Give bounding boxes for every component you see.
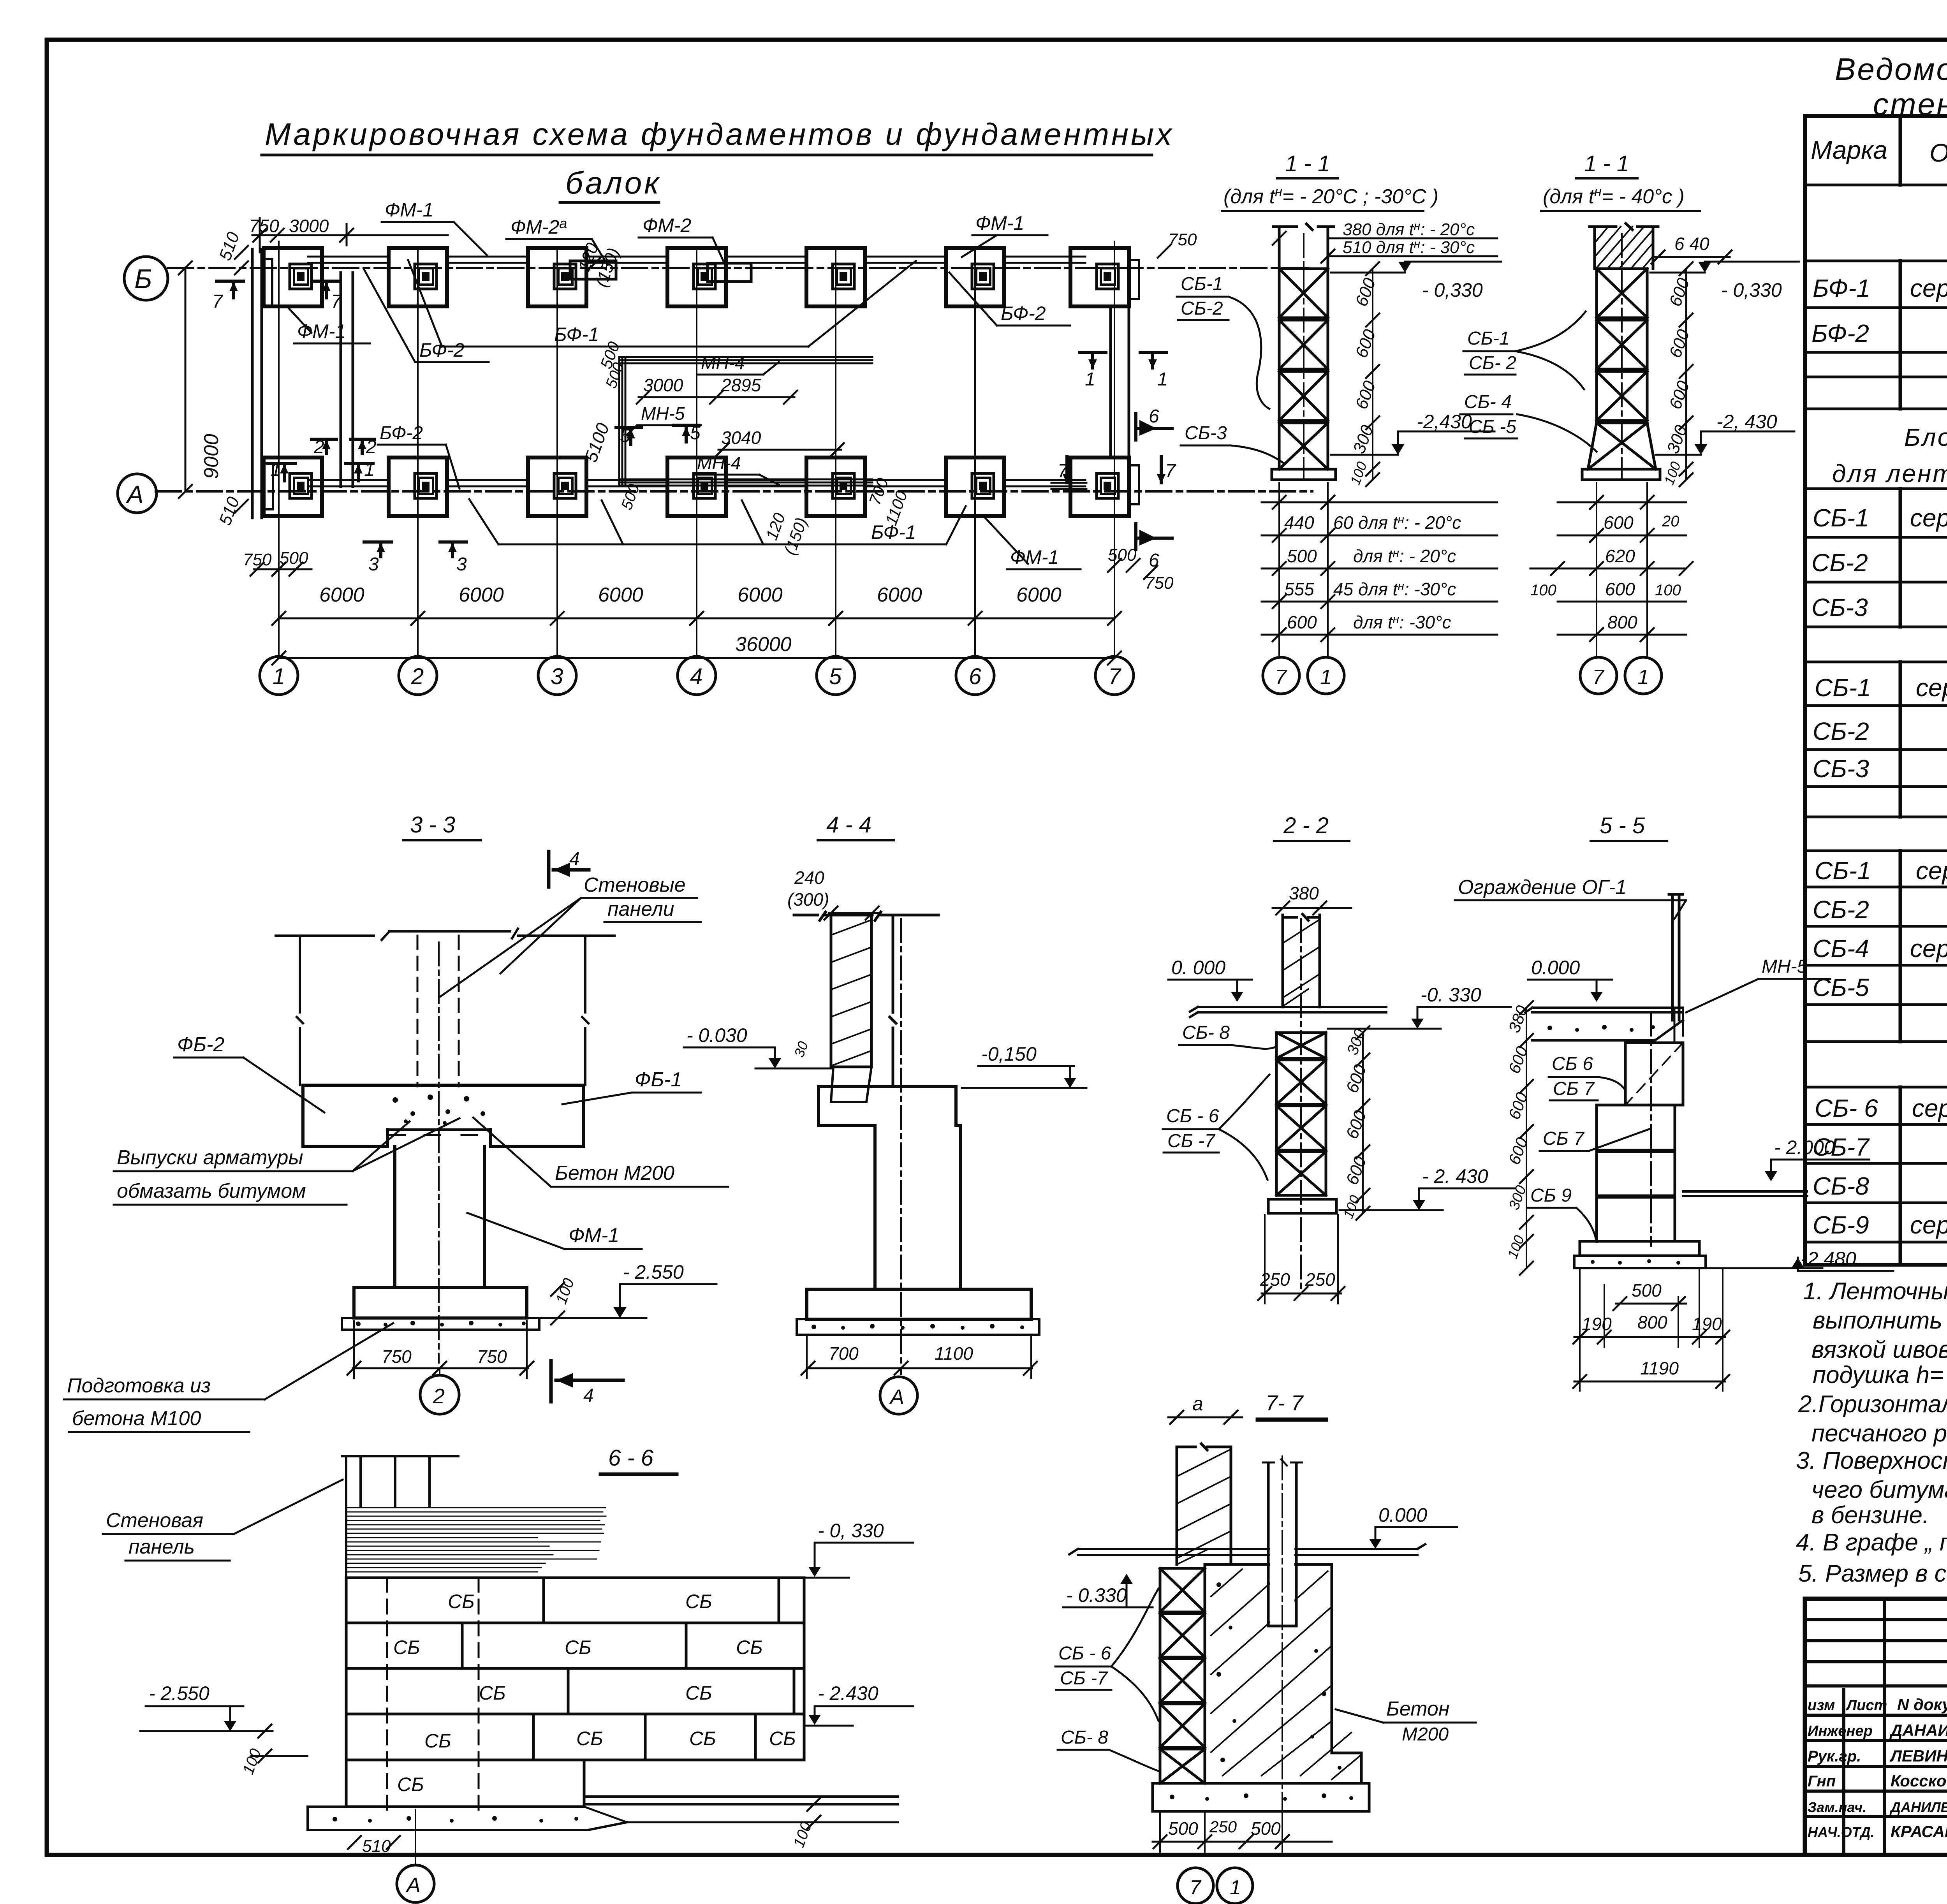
section 2-2 title (1274, 813, 1349, 841)
footing 7B (1070, 248, 1129, 306)
svg-text:510 для tн: - 30°c: 510 для tн: - 30°c (1343, 238, 1475, 257)
svg-text:- 0.030: - 0.030 (687, 1024, 747, 1046)
axis A circle (118, 474, 157, 513)
svg-text:Бетон М200: Бетон М200 (555, 1162, 674, 1184)
svg-text:СБ-5: СБ-5 (1813, 973, 1869, 1001)
svg-text:СБ -7: СБ -7 (1167, 1131, 1216, 1151)
svg-text:СБ: СБ (736, 1637, 763, 1658)
label SB-4/SB-5 (1460, 392, 1597, 452)
title block texts left columns (1808, 1695, 1947, 1841)
label FM-1 right (962, 212, 1047, 257)
svg-text:2 - 2: 2 - 2 (1283, 813, 1329, 838)
svg-text:240: 240 (794, 868, 824, 888)
level -2,430 (1331, 411, 1495, 455)
footing 5B (806, 248, 865, 306)
svg-text:500: 500 (1168, 1818, 1198, 1839)
dims 250 250 (1258, 1215, 1345, 1304)
label SB-3 (1181, 423, 1285, 464)
label SB-1/SB-2 b (1463, 311, 1586, 389)
level 0.000 5-5 (1528, 957, 1612, 1002)
svg-text:А: А (889, 1385, 904, 1409)
svg-text:ДАНАИДА: ДАНАИДА (1889, 1721, 1947, 1739)
label BF-2 near marker 2 (378, 423, 459, 489)
svg-text:СБ - 6: СБ - 6 (1058, 1643, 1111, 1664)
label BF-2 top-right (949, 273, 1070, 326)
svg-text:7: 7 (1165, 461, 1176, 481)
svg-text:А: А (405, 1874, 421, 1897)
dim 510 left top (215, 229, 248, 275)
svg-text:1: 1 (1157, 369, 1168, 390)
svg-text:Рук.гр.: Рук.гр. (1808, 1748, 1861, 1765)
svg-text:- 2.550: - 2.550 (623, 1261, 684, 1283)
slab 5-5 (1580, 1241, 1699, 1256)
svg-text:СБ-2: СБ-2 (1811, 549, 1868, 577)
svg-text:СБ-1: СБ-1 (1813, 504, 1869, 532)
svg-text:- 2.550: - 2.550 (149, 1682, 209, 1704)
svg-text:(для tн= - 40°с ): (для tн= - 40°с ) (1543, 185, 1685, 208)
footing 4-4 (807, 1289, 1031, 1319)
right wall strip (1111, 306, 1129, 457)
level -0.330 2-2 (1328, 984, 1511, 1029)
right dim chain 2-2 (1340, 1026, 1370, 1221)
svg-text:Выпуски арматуры: Выпуски арматуры (117, 1146, 303, 1169)
svg-text:серия 1.112 -1, вып. 1: серия 1.112 -1, вып. 1 (1910, 934, 1947, 963)
svg-text:7: 7 (1190, 1876, 1202, 1899)
svg-text:СБ: СБ (685, 1682, 712, 1704)
svg-text:6000: 6000 (459, 584, 504, 606)
footing slab (1272, 469, 1336, 480)
left dim chain 5-5 (1504, 1001, 1533, 1275)
svg-text:100: 100 (1530, 582, 1556, 599)
svg-text:4: 4 (583, 1385, 594, 1406)
axis circles 1-7 (260, 656, 1134, 695)
svg-text:- 0,330: - 0,330 (1422, 279, 1483, 301)
svg-text:7: 7 (212, 291, 224, 312)
svg-text:-2, 430: -2, 430 (1716, 411, 1777, 433)
svg-text:МН-5: МН-5 (641, 403, 685, 424)
svg-text:6: 6 (1149, 406, 1159, 427)
svg-text:- 0.330: - 0.330 (1066, 1584, 1127, 1606)
svg-text:5: 5 (829, 664, 842, 689)
svg-text:9000: 9000 (200, 434, 223, 479)
top dims 380/510 (1273, 220, 1497, 263)
pier 3-3 (395, 1146, 484, 1288)
label SB-1/SB-2 (1177, 274, 1269, 409)
svg-text:7- 7: 7- 7 (1266, 1390, 1304, 1415)
dim 510 6-6 (348, 1836, 400, 1856)
svg-text:Косско: Косско (1891, 1772, 1947, 1790)
svg-text:2: 2 (411, 664, 424, 689)
level -2.000 (1765, 1137, 1869, 1181)
dims 500 250 500 7-7 (1153, 1813, 1332, 1852)
svg-text:3000: 3000 (289, 216, 329, 236)
svg-text:36000: 36000 (735, 633, 792, 656)
underlay 3-3 (342, 1318, 539, 1330)
svg-text:ФМ-1: ФМ-1 (297, 320, 346, 342)
label MN-5 5-5 (1686, 956, 1830, 1012)
svg-text:чего битума по огрунтовке: чего битума по огрунтовке из битума, рас… (1811, 1476, 1947, 1503)
svg-text:2.Горизонтальная гидроизоляц: 2.Горизонтальная гидроизоляция на отм. -… (1798, 1391, 1947, 1418)
dims 240 (300) (787, 868, 879, 920)
wall stub above (1273, 224, 1334, 269)
svg-text:750: 750 (249, 216, 279, 236)
svg-text:Обозначение: Обозначение (1929, 138, 1947, 167)
svg-text:серия 1.116 - 1, вып. 1: серия 1.116 - 1, вып. 1 (1910, 504, 1947, 532)
footing 6A (946, 458, 1004, 516)
label SB-6/SB-7 7-7 (1055, 1589, 1158, 1721)
svg-text:750: 750 (477, 1346, 507, 1367)
dashed panel projection lines 6-6 (387, 1578, 479, 1810)
cut marker 4 bottom (551, 1361, 623, 1406)
svg-text:ФБ-2: ФБ-2 (177, 1033, 224, 1056)
channel dims and labels (581, 353, 911, 557)
pocket interior mask 7-7 (1270, 1480, 1294, 1624)
svg-text:Инженер: Инженер (1808, 1723, 1873, 1739)
svg-text:1190: 1190 (1640, 1358, 1679, 1378)
svg-text:- 2. 430: - 2. 430 (1422, 1165, 1488, 1187)
svg-text:750: 750 (1168, 230, 1197, 249)
svg-text:СБ-9: СБ-9 (1813, 1211, 1869, 1239)
panel hatch band 6-6 (347, 1508, 606, 1572)
svg-text:750: 750 (243, 550, 272, 569)
svg-text:песчаного раствора состава 1: песчаного раствора состава 1: 2 толщиной… (1811, 1420, 1947, 1447)
svg-text:МН-4: МН-4 (697, 453, 741, 473)
svg-text:1 - 1: 1 - 1 (1584, 151, 1629, 176)
underlay 4-4 (797, 1319, 1039, 1335)
svg-text:190: 190 (1692, 1314, 1722, 1334)
svg-text:7: 7 (1592, 665, 1605, 689)
svg-text:600: 600 (1605, 579, 1635, 599)
svg-text:Маркировочная схема фундам: Маркировочная схема фундаментов и фундам… (265, 117, 1174, 151)
left wall strip (252, 249, 262, 518)
centerline 2-2 (1300, 919, 1302, 1293)
svg-text:СБ-8: СБ-8 (1813, 1172, 1869, 1200)
centerline 1-1b (1621, 234, 1623, 479)
footing 7A right pad (1129, 465, 1139, 504)
svg-text:700: 700 (829, 1343, 859, 1364)
axis A line (156, 490, 1312, 493)
cut marker 4 top (549, 849, 589, 887)
dim 380 2-2 (1273, 883, 1351, 915)
label SB-6/SB-7 2-2 (1163, 1075, 1269, 1180)
right dim chain 600s (1347, 262, 1380, 487)
svg-text:Блоки бетонные для стен по: Блоки бетонные для стен подвалов и плиты (1904, 423, 1947, 451)
svg-text:N докум: N докум (1897, 1695, 1947, 1714)
svg-text:800: 800 (1607, 612, 1637, 632)
footing 2B (389, 248, 447, 306)
title block grid (1805, 1599, 1947, 1855)
table heading (1835, 52, 1947, 121)
label Beton M200 7-7 (1336, 1698, 1476, 1745)
dims 700 1100 (801, 1336, 1037, 1378)
svg-text:4: 4 (690, 664, 702, 689)
svg-text:в бензине.: в бензине. (1811, 1502, 1929, 1529)
dims below 5-5 (1573, 1269, 1729, 1391)
centerline 3-3 (438, 942, 440, 1363)
footing 4B (667, 248, 726, 306)
footing 6B (946, 248, 1004, 306)
svg-text:0. 000: 0. 000 (1171, 957, 1225, 978)
footing 1B left pad (262, 259, 272, 306)
BF-2 vertical beam between axes (341, 273, 353, 487)
wall 7-7 hatched (1177, 1444, 1231, 1564)
svg-text:(300): (300) (787, 889, 829, 910)
main plan title (262, 117, 1174, 202)
footing slab 7-7 (1153, 1783, 1369, 1811)
dims 750 750 (347, 1321, 533, 1378)
footing 1A left pad (262, 463, 273, 509)
svg-text:600: 600 (1287, 612, 1317, 632)
svg-text:5: 5 (690, 423, 701, 443)
axis circle 2 of section 3-3 (420, 1375, 459, 1414)
svg-text:СБ -5: СБ -5 (1469, 417, 1516, 437)
footing 3B (528, 248, 586, 306)
svg-text:МН-4: МН-4 (701, 353, 745, 373)
svg-text:СБ 9: СБ 9 (1530, 1185, 1572, 1206)
svg-text:вязкой швов, на цементном ра: вязкой швов, на цементном растворе М-50.… (1811, 1336, 1947, 1363)
stepped wall blocks 5-5 (1597, 1043, 1683, 1241)
table section: foundation beams (1811, 201, 1947, 347)
svg-text:для ленточных фундаментов:: для ленточных фундаментов: (1832, 459, 1947, 487)
block stack 1-1b (1588, 269, 1656, 469)
label BF-1 bottom (469, 499, 966, 544)
svg-text:2895: 2895 (721, 375, 761, 395)
svg-text:440: 440 (1284, 512, 1314, 533)
svg-text:МН-5: МН-5 (1762, 956, 1808, 977)
footing 3B nose (570, 261, 616, 279)
label FM-2 (639, 215, 725, 265)
svg-text:60 для tн: - 20°c: 60 для tн: - 20°c (1333, 512, 1461, 533)
svg-text:БФ-1: БФ-1 (871, 521, 916, 543)
svg-text:Зам.нач.: Зам.нач. (1808, 1799, 1866, 1815)
wall 2-2 hatched (1283, 914, 1320, 1007)
svg-text:СБ-3: СБ-3 (1813, 755, 1869, 783)
svg-text:Подготовка из: Подготовка из (67, 1374, 211, 1397)
dim 640 (1651, 234, 1732, 264)
level -2.550 (530, 1261, 716, 1318)
section cut markers on plan (217, 281, 1172, 557)
svg-text:серия 1.116 -1, вып.1: серия 1.116 -1, вып.1 (1912, 1094, 1947, 1122)
svg-text:Стеновая: Стеновая (106, 1509, 203, 1532)
svg-text:СБ: СБ (689, 1728, 716, 1749)
level -0,330 6-6 (716, 1520, 913, 1578)
svg-text:2: 2 (313, 437, 324, 458)
svg-text:бетона М100: бетона М100 (72, 1407, 201, 1430)
svg-text:-0,150: -0,150 (981, 1043, 1037, 1065)
svg-text:20: 20 (1662, 513, 1679, 530)
label Beton M200 (473, 1117, 728, 1187)
level 0.000 2-2 (1168, 957, 1252, 1002)
svg-text:6000: 6000 (319, 584, 364, 606)
svg-text:СБ 6: СБ 6 (1552, 1054, 1593, 1074)
svg-text:СБ: СБ (685, 1591, 712, 1612)
label FM-1 section (467, 1213, 642, 1249)
footing slab 2-2 (1268, 1199, 1336, 1213)
label BF-2 mid-left (364, 269, 489, 362)
svg-text:СБ- 4: СБ- 4 (1464, 392, 1512, 412)
svg-text:4 - 4: 4 - 4 (826, 812, 871, 838)
svg-text:Бетон: Бетон (1386, 1698, 1449, 1720)
svg-text:серия 1. 415 -1 , вып.1: серия 1. 415 -1 , вып.1 (1910, 274, 1947, 302)
svg-text:3 - 3: 3 - 3 (410, 812, 455, 838)
svg-text:Гнп: Гнп (1808, 1773, 1836, 1790)
svg-text:800: 800 (1637, 1312, 1667, 1332)
label podgotovka (64, 1323, 393, 1432)
label FB-1 (562, 1068, 701, 1104)
label SB9 5-5 (1527, 1185, 1597, 1242)
svg-text:0.000: 0.000 (1531, 957, 1580, 978)
svg-text:СБ: СБ (397, 1774, 424, 1795)
column in pocket 7-7 (1263, 1459, 1302, 1626)
level -0,330 b (1650, 262, 1799, 301)
svg-text:серия 1.116- 1, вып.1: серия 1.116- 1, вып.1 (1916, 674, 1947, 702)
svg-text:Стеновые: Стеновые (584, 874, 686, 896)
svg-text:6000: 6000 (1016, 584, 1062, 606)
underlay 5-5 (1574, 1256, 1706, 1268)
svg-text:380: 380 (1289, 883, 1319, 903)
svg-text:6: 6 (969, 664, 982, 689)
foundation beams top row (308, 257, 1085, 263)
footing 1A (264, 458, 322, 516)
axis circles 7 1 of section 7-7 (1178, 1868, 1253, 1904)
block stack 2-2 (1276, 1033, 1326, 1195)
svg-text:подушка h= 100мм.: подушка h= 100мм. (1813, 1362, 1947, 1388)
CB labels in blocks (393, 1591, 796, 1795)
svg-text:6 - 6: 6 - 6 (608, 1445, 654, 1471)
label FM-2a (506, 215, 607, 265)
svg-text:ФМ-1: ФМ-1 (385, 199, 433, 221)
label SB6/SB7 5-5 (1549, 1054, 1625, 1100)
level -0.330 7-7 (1063, 1574, 1153, 1607)
svg-text:ФМ-1: ФМ-1 (1010, 546, 1059, 568)
svg-text:2: 2 (366, 437, 377, 458)
dim row 6000 (272, 584, 1121, 625)
svg-text:НАЧ.ОТД.: НАЧ.ОТД. (1808, 1824, 1875, 1840)
right lower strip 6-6 (584, 1797, 898, 1822)
footing 1B (264, 248, 322, 306)
level -0,150 (962, 1043, 1086, 1088)
svg-text:6 40: 6 40 (1674, 234, 1709, 254)
svg-text:1100: 1100 (935, 1343, 973, 1364)
axis circles 7 1 for section 1-1a (1263, 657, 1344, 694)
svg-text:СБ 7: СБ 7 (1553, 1079, 1595, 1099)
svg-text:750: 750 (1145, 574, 1174, 593)
svg-text:250: 250 (1209, 1818, 1237, 1836)
svg-text:СБ 7: СБ 7 (1543, 1128, 1585, 1149)
footing 3A (528, 458, 586, 516)
bottom dims 1-1b (1530, 483, 1693, 657)
wall panel top 6-6 (342, 1456, 458, 1506)
svg-text:-0. 330: -0. 330 (1421, 984, 1481, 1006)
svg-text:ФМ-2а: ФМ-2а (511, 215, 567, 238)
svg-text:2: 2 (433, 1385, 445, 1408)
svg-text:1: 1 (1085, 369, 1095, 390)
svg-text:СБ-2: СБ-2 (1813, 717, 1869, 745)
dim 36000 (272, 633, 1121, 665)
svg-text:обмазать битумом: обмазать битумом (117, 1180, 306, 1202)
svg-text:500: 500 (1287, 546, 1317, 566)
svg-text:СБ: СБ (479, 1682, 506, 1704)
svg-text:- 0, 330: - 0, 330 (818, 1520, 884, 1542)
svg-text:панель: панель (129, 1536, 195, 1558)
svg-text:Ведомость фундаментных ба: Ведомость фундаментных балок и (1835, 52, 1947, 86)
svg-text:изм: изм (1808, 1697, 1835, 1714)
section 1-1a title (1222, 151, 1438, 211)
svg-text:6000: 6000 (598, 584, 643, 606)
svg-text:1: 1 (1230, 1876, 1241, 1899)
svg-text:СБ -7: СБ -7 (1060, 1668, 1108, 1689)
right dim chain b (1661, 262, 1694, 487)
svg-text:620: 620 (1605, 546, 1635, 566)
level -0,330 (1331, 262, 1501, 301)
svg-text:СБ: СБ (769, 1728, 796, 1749)
floor line 2-2 (1190, 1007, 1386, 1017)
table section: wall blocks -20C (1811, 423, 1947, 1239)
concrete infill dots 3-3 (393, 1095, 485, 1125)
svg-text:7: 7 (331, 291, 342, 312)
svg-text:- 2.000: - 2.000 (1774, 1137, 1835, 1158)
svg-text:250: 250 (1305, 1269, 1335, 1290)
monorail channel MN-4/MN-5 (619, 357, 872, 486)
foundation beams bottom row (308, 480, 1086, 489)
svg-text:- 2.430: - 2.430 (818, 1682, 878, 1704)
svg-text:600: 600 (1604, 512, 1634, 533)
section 3-3 title (403, 812, 481, 840)
footing 3-3 (354, 1288, 527, 1318)
svg-text:СБ- 2: СБ- 2 (1469, 353, 1516, 373)
floor slab 5-5 (1525, 1008, 1683, 1040)
dim a + title 7-7 (1168, 1393, 1242, 1424)
beam band 3-3 (303, 1085, 584, 1146)
level -0.030 4-4 (684, 1024, 831, 1068)
svg-text:3: 3 (551, 664, 563, 689)
svg-text:ЛЕВИНА: ЛЕВИНА (1889, 1747, 1947, 1765)
dim 100 left 6-6 (239, 1725, 308, 1777)
label Ograzhdenie OG-1 (1455, 876, 1686, 919)
svg-text:СБ-3: СБ-3 (1811, 593, 1868, 621)
svg-text:3: 3 (456, 554, 467, 575)
svg-text:380 для tн: - 20°c: 380 для tн: - 20°c (1343, 220, 1475, 239)
hatched wall above (1590, 223, 1658, 269)
svg-text:- 0,330: - 0,330 (1721, 279, 1782, 301)
svg-text:СБ-1: СБ-1 (1181, 274, 1223, 294)
axis B line (168, 267, 1312, 269)
svg-text:Ограждение ОГ-1: Ограждение ОГ-1 (1458, 876, 1627, 899)
svg-text:М200: М200 (1402, 1724, 1449, 1745)
svg-text:СБ-1: СБ-1 (1815, 857, 1871, 885)
svg-text:3: 3 (368, 554, 379, 575)
svg-text:выполнить из бетонных сплош: выполнить из бетонных сплошных блоков с … (1813, 1307, 1947, 1334)
svg-text:5: 5 (620, 426, 630, 446)
svg-text:Б: Б (134, 264, 152, 294)
wall panel 4-4 hatched (794, 912, 938, 1102)
footing 5A (806, 458, 865, 516)
svg-text:750: 750 (382, 1346, 412, 1367)
plan top dimensions 750 3000 (249, 216, 448, 252)
svg-text:1 - 1: 1 - 1 (1285, 151, 1330, 176)
svg-text:Лист: Лист (1845, 1697, 1887, 1714)
block stack 7-7 (1160, 1568, 1205, 1783)
label SB7 5-5 (1540, 1128, 1649, 1151)
svg-text:СБ-2: СБ-2 (1181, 298, 1223, 319)
svg-text:500: 500 (1251, 1818, 1281, 1839)
label FM-1 top (382, 199, 487, 255)
dim 100 right 6-6 (790, 1798, 820, 1850)
svg-text:5. Размер в скобках дан: 5. Размер в скобках дан для t = -30°C ; … (1798, 1560, 1947, 1587)
level -2.480 (1706, 1248, 1893, 1271)
concrete mass 7-7 (1205, 1564, 1361, 1783)
svg-text:СБ-1: СБ-1 (1467, 328, 1510, 349)
